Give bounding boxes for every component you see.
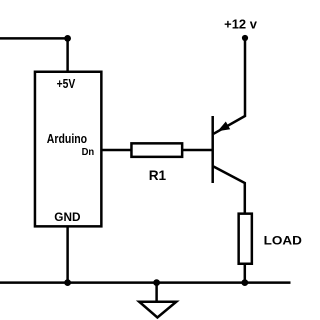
svg-text:R1: R1 (149, 168, 167, 183)
svg-text:Dn: Dn (82, 147, 95, 158)
svg-text:GND: GND (54, 210, 80, 224)
svg-text:+5V: +5V (57, 77, 76, 91)
svg-text:+12 v: +12 v (224, 18, 257, 32)
svg-text:Arduino: Arduino (47, 131, 87, 146)
svg-text:LOAD: LOAD (264, 233, 302, 247)
